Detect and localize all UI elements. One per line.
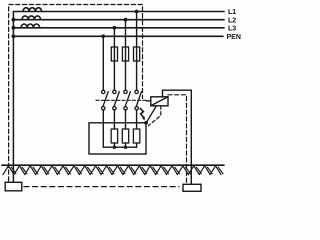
wire L2 line (13, 19, 224, 21)
fuse F2 (L2) (122, 47, 128, 61)
junction L2 tap (124, 18, 128, 22)
wire PEN line (13, 35, 223, 37)
wire PE conductor to earth electrode (163, 90, 192, 184)
wire L2 drop (125, 20, 127, 91)
wire dashed PE alternative (to load) (148, 106, 161, 126)
junction L3 tap (113, 26, 117, 30)
wire L3 drop (113, 28, 115, 90)
ground hatching (3, 166, 223, 175)
junction appliance PEN (144, 121, 148, 125)
ground surface line (2, 164, 224, 166)
svg-text:L3: L3 (228, 25, 236, 32)
wire L3 line (13, 27, 224, 29)
wire PEN bridge to appliance (146, 106, 156, 123)
transformer winding L1 (23, 8, 42, 12)
switch pole L1 (135, 90, 142, 110)
fault arrow (zigzag) (140, 108, 144, 117)
wire stub to bridge box (146, 100, 151, 102)
junction star point L2 (12, 18, 16, 22)
junction star point PEN (12, 34, 16, 38)
wire L1 line (13, 11, 224, 13)
load appliance enclosure (89, 123, 146, 154)
wire PEN to load (102, 110, 104, 147)
svg-text:PEN: PEN (227, 34, 241, 41)
earth electrode E1 (left) (5, 182, 22, 191)
wire L2 to load (125, 110, 127, 129)
svg-text:L2: L2 (228, 17, 236, 24)
switch pole PEN (102, 90, 109, 110)
junction bus R1 (113, 146, 116, 149)
junction L1 tap (135, 10, 139, 14)
wire L3 to load (113, 110, 115, 129)
resistor R1 (L3) (111, 129, 117, 143)
junction star point L3 (12, 26, 16, 30)
resistor R3 (L1) (133, 129, 139, 143)
wire transformer star-point bus / earthing conductor (12, 12, 14, 183)
wire dashed PE alternative (right) (168, 95, 187, 185)
junction bus R2 (124, 146, 127, 149)
wire PEN drop (102, 36, 104, 90)
earth electrode E2 (right) (183, 184, 201, 191)
transformer winding L2 (22, 16, 41, 20)
wire L1 drop (136, 12, 138, 91)
switch coupling link (dashed) (96, 99, 147, 101)
wire L1 to load (136, 110, 138, 129)
PEN bridge box U1 (151, 97, 168, 106)
enclosure transformer station (dashed) (9, 5, 143, 182)
fuse F3 (L1) (134, 47, 140, 61)
wire buried equipotential link (dashed) (24, 186, 179, 188)
junction PEN tap (101, 34, 105, 38)
resistor R2 (L2) (122, 129, 128, 143)
fuse F1 (L3) (111, 47, 117, 61)
wire resistor bottom leads and neutral bus (113, 143, 115, 147)
switch pole L2 (124, 90, 131, 110)
switch pole L3 (113, 90, 120, 110)
svg-text:L1: L1 (228, 9, 236, 16)
transformer winding L3 (21, 24, 40, 28)
